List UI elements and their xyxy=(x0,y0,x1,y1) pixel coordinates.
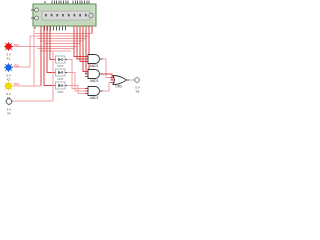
AND gate U7 xyxy=(85,87,103,101)
svg-text:5V3: 5V3 xyxy=(14,82,19,86)
pad left top xyxy=(31,8,39,12)
svg-text:X1: X1 xyxy=(7,57,11,61)
top pins group 2 xyxy=(73,1,89,5)
pin 1 mark xyxy=(44,2,46,4)
OR gate U8 xyxy=(111,76,130,89)
wire to probe X2 xyxy=(29,36,31,67)
wire verticals from chip right pins xyxy=(74,26,92,77)
wire OR out to probe X5 xyxy=(129,79,135,81)
wire to U2 input xyxy=(50,26,56,60)
svg-text:OR3: OR3 xyxy=(115,85,122,89)
probe X3 yellow xyxy=(4,82,19,101)
NOT gate U3 xyxy=(56,69,68,81)
wire H5 xyxy=(43,43,80,45)
svg-text:AND3: AND3 xyxy=(90,79,99,83)
DIP switch component U1 body xyxy=(33,4,96,26)
wire H1 xyxy=(34,33,92,35)
wire to probe X1 xyxy=(40,26,42,86)
wire left bundle verticals xyxy=(12,27,53,101)
wire H8 xyxy=(40,50,71,52)
probe X1 red xyxy=(4,42,19,61)
probe X2 blue xyxy=(4,63,19,82)
wire NOT U2 out to AND U7 xyxy=(67,60,88,89)
top pins group 1 xyxy=(52,1,68,5)
wire NOT U4 out to AND U7 xyxy=(67,86,88,94)
wire to U3 input xyxy=(47,26,56,73)
svg-text:NOT: NOT xyxy=(57,77,64,81)
bottom pin stubs right xyxy=(74,26,89,28)
pad left bottom xyxy=(31,16,39,20)
wire verticals to NOT gates xyxy=(41,26,56,86)
wire pin12 xyxy=(83,26,88,72)
wire to probe X3 xyxy=(33,27,35,86)
svg-text:X5: X5 xyxy=(136,90,140,94)
svg-text:AND3: AND3 xyxy=(90,96,99,100)
svg-text:AND3: AND3 xyxy=(90,64,99,68)
wire AND U7 out to OR xyxy=(103,83,114,92)
wire H3 xyxy=(37,38,86,40)
wire H7 xyxy=(37,48,74,50)
DIP switch slider band xyxy=(42,11,90,20)
svg-text:X4: X4 xyxy=(7,112,11,116)
wire pin13 xyxy=(86,26,88,74)
svg-text:X2: X2 xyxy=(7,78,11,82)
wire pin14 xyxy=(88,26,89,77)
AND gate U6 xyxy=(85,70,103,84)
wire H4 xyxy=(40,40,83,42)
pad right xyxy=(89,13,93,17)
wire to probe X4 xyxy=(52,51,54,101)
wire pin10 xyxy=(77,26,88,59)
wire to U4 input xyxy=(44,26,56,86)
probe X4 off xyxy=(5,98,13,116)
svg-text:NOT: NOT xyxy=(57,90,64,94)
probe X5 output xyxy=(135,78,140,94)
NOT gate U2 xyxy=(56,56,68,68)
wire H2 xyxy=(30,35,89,37)
wire pin11 xyxy=(80,26,88,62)
svg-text:NOT: NOT xyxy=(57,64,64,68)
corner dot xyxy=(34,27,36,29)
NOT gate U4 xyxy=(56,82,68,94)
bottom pin labels xyxy=(45,27,66,31)
AND gate U5 xyxy=(85,55,103,69)
wire AND U5 out to OR xyxy=(103,59,114,78)
svg-text:5V1: 5V1 xyxy=(14,43,19,47)
wire pin15 xyxy=(91,26,93,34)
wire AND U6 out to OR xyxy=(103,74,114,80)
wire NOT U3 out to AND U7 xyxy=(67,73,88,92)
wire H6 probe X1 net xyxy=(12,46,77,48)
wire harness horizontals xyxy=(12,34,92,52)
wire pin9 xyxy=(74,26,88,57)
svg-text:5V2: 5V2 xyxy=(14,64,19,68)
